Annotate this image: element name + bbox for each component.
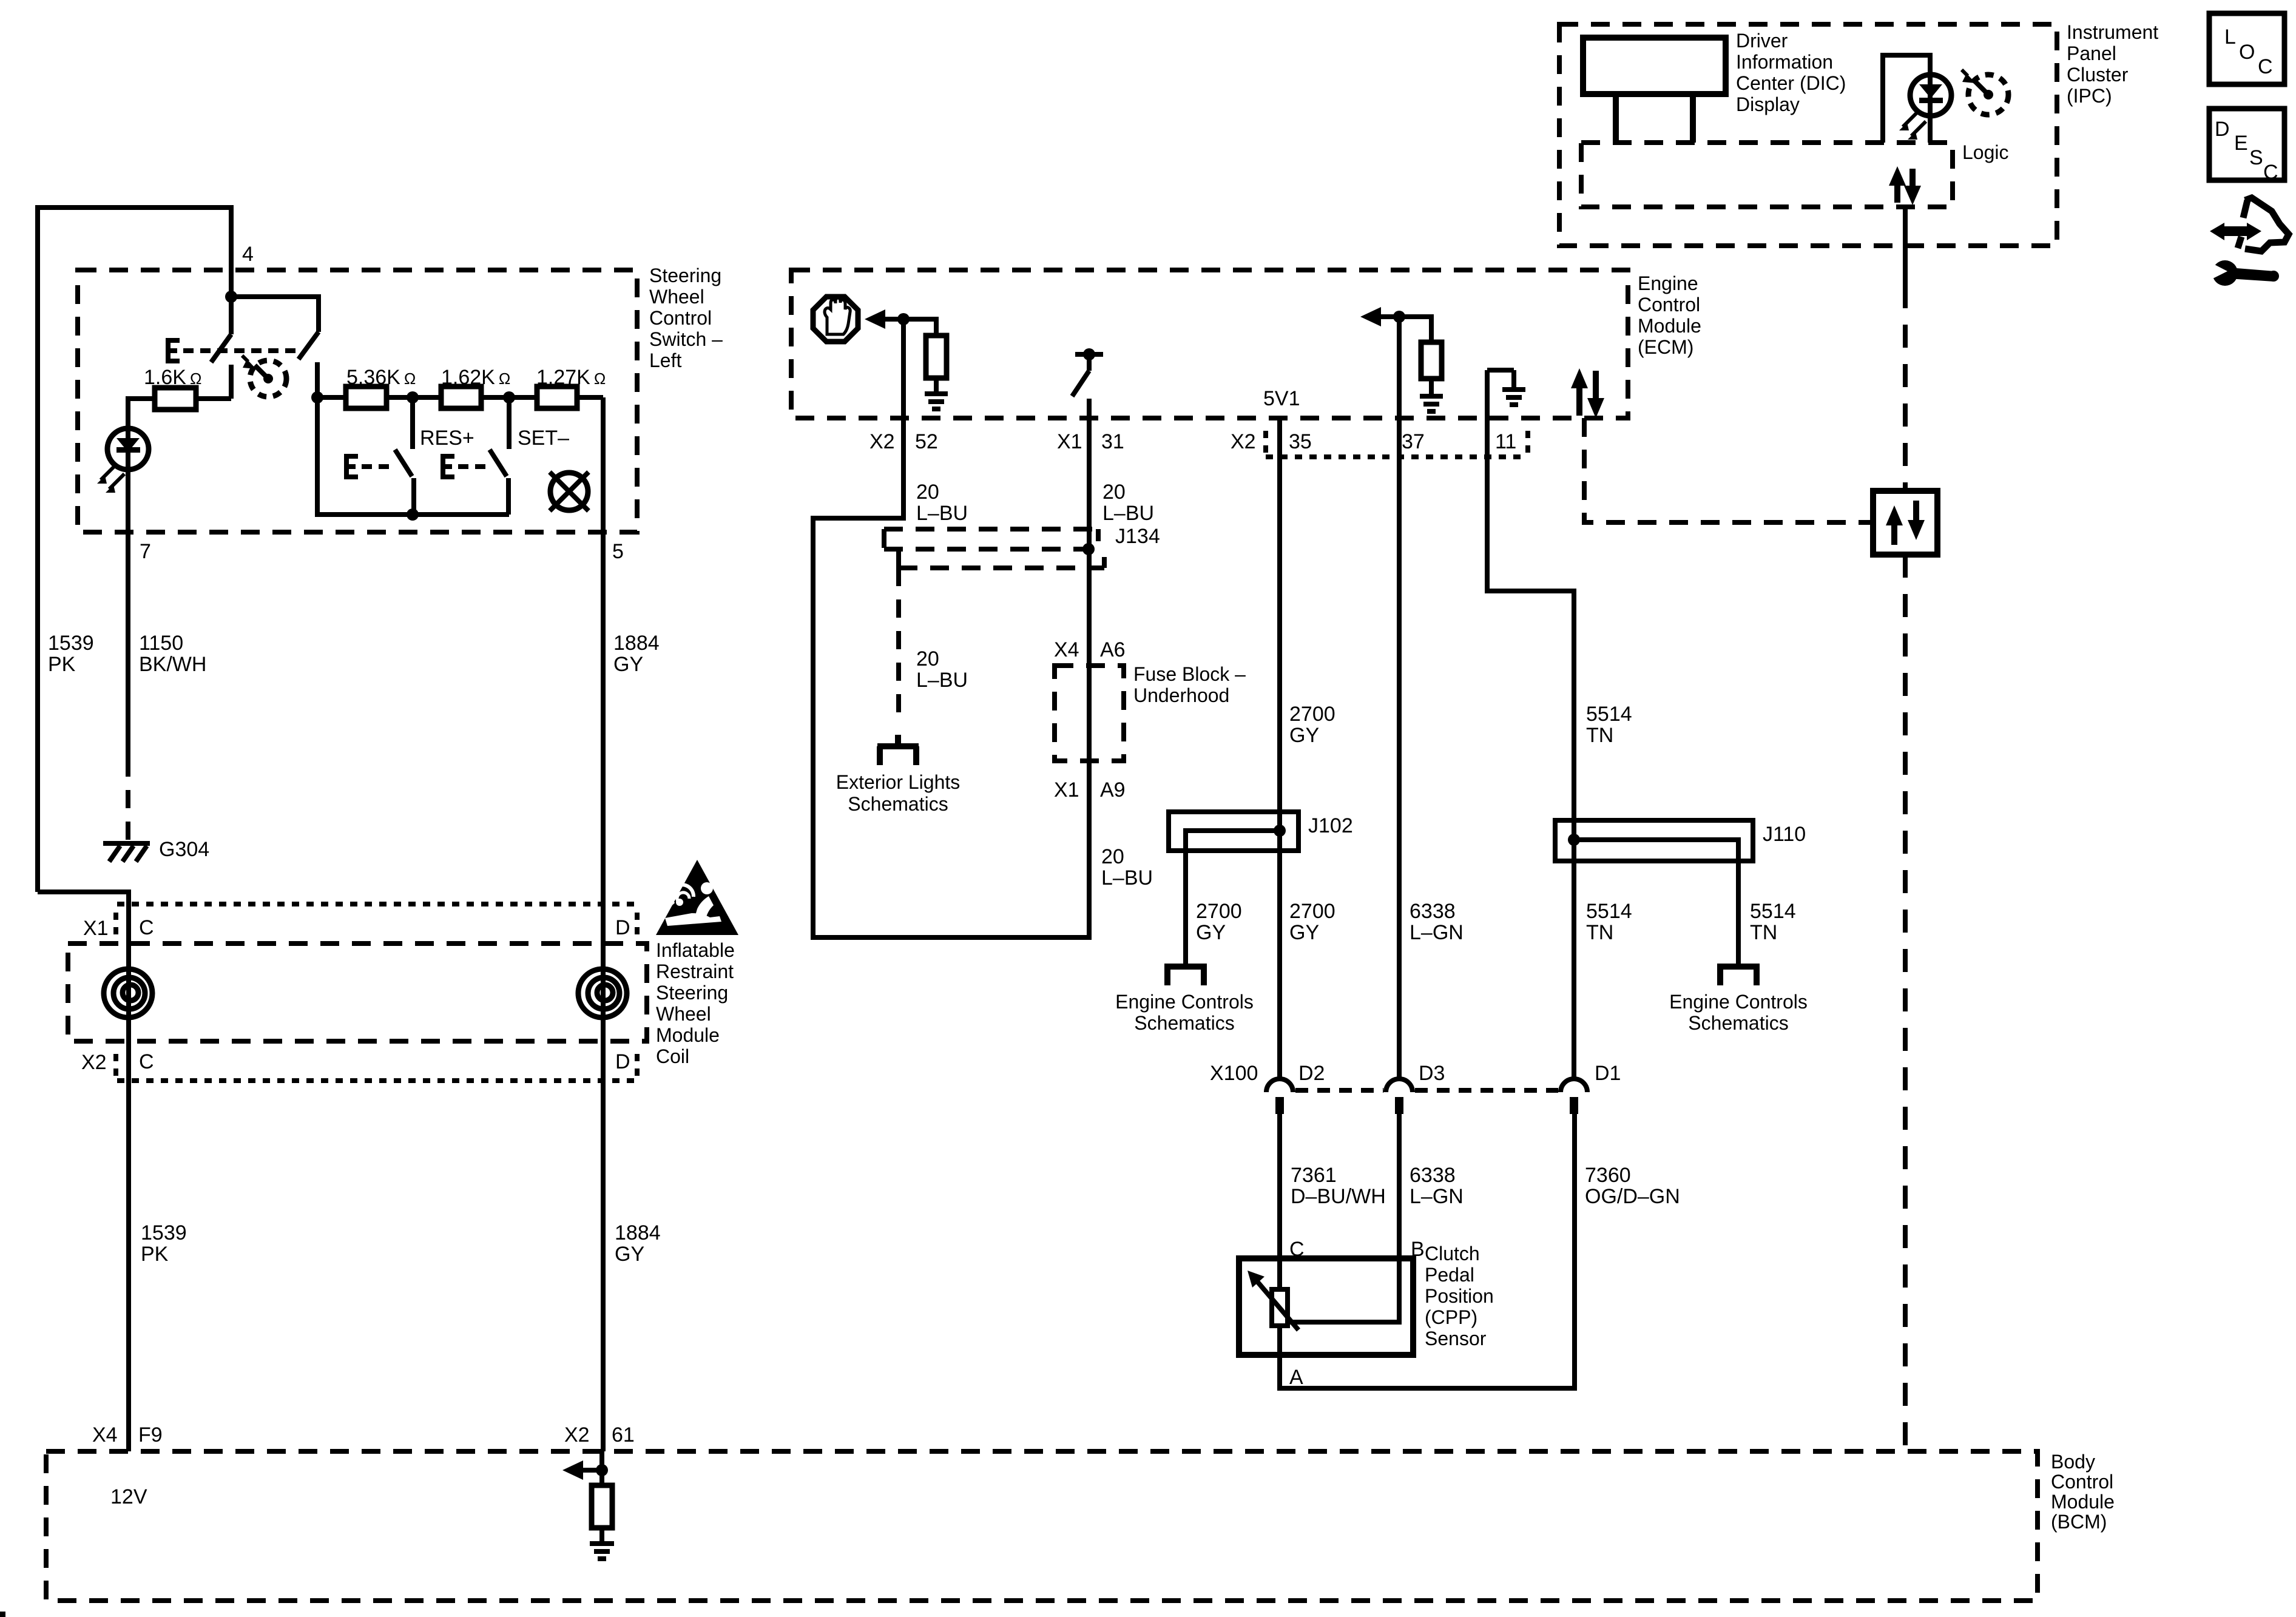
svg-text:D: D [615,1050,630,1073]
svg-text:F9: F9 [138,1423,163,1447]
svg-text:61: 61 [612,1423,635,1447]
svg-text:L–BU: L–BU [916,669,968,692]
X100 D1 pin [1570,1097,1578,1114]
coil module dashed box [68,944,647,1041]
svg-text:Inflatable: Inflatable [656,939,735,961]
connector box arrows [1886,501,1925,545]
J110 internal branch [1574,840,1738,965]
wire R1 to LED [128,399,155,428]
svg-text:12V: 12V [110,1485,147,1508]
svg-text:7360: 7360 [1585,1164,1631,1187]
resistor R4 1.27K body [537,387,577,408]
CPP potentiometer body [1272,1289,1288,1326]
svg-text:20: 20 [1102,481,1126,504]
svg-text:Pedal: Pedal [1425,1264,1474,1286]
wire 6338 pin37 down [1397,317,1402,1078]
svg-text:A9: A9 [1100,778,1126,802]
connector X2 right tick [635,1054,640,1078]
svg-text:X1: X1 [83,917,109,940]
actuator dashed link S1 [183,348,302,353]
wire 5V1 pin35 down [1277,418,1282,1078]
svg-text:X4: X4 [1054,638,1079,661]
wire 6338 D3 to CPP B [1288,1114,1399,1322]
junction node at pin4 entry [225,291,237,303]
IPC gauge icon [1962,70,2008,115]
left clockspring coil [104,969,152,1018]
svg-text:J102: J102 [1308,814,1353,837]
wire from pin 4 feed (top-left loop) [38,208,231,892]
resistor R3 1.62K body [441,387,481,408]
logic serial arrows up/down [1889,166,1921,205]
svg-text:Position: Position [1425,1285,1494,1307]
svg-text:5V1: 5V1 [1263,387,1300,410]
svg-text:Schematics: Schematics [848,793,948,815]
svg-text:Body: Body [2051,1451,2095,1473]
svg-text:A6: A6 [1100,638,1126,661]
wire logic to IPC edge [1903,207,1908,285]
svg-text:Information: Information [1736,51,1833,73]
svg-text:Control: Control [2051,1471,2113,1493]
svg-text:X2: X2 [81,1051,107,1074]
X100 D1 socket arc [1561,1079,1587,1092]
svg-text:Coil: Coil [656,1045,689,1067]
LED wire to pin 7 [126,470,130,758]
J102 junction dot [1274,825,1286,837]
svg-text:6338: 6338 [1410,1164,1456,1187]
SET- actuator E [443,456,454,477]
svg-text:PK: PK [48,653,76,676]
connector X1 right tick [635,913,640,937]
svg-text:J110: J110 [1763,823,1806,846]
DIC display legs [1616,94,1693,143]
svg-text:Restraint: Restraint [656,960,734,982]
svg-text:1150: 1150 [139,632,183,655]
svg-text:7361: 7361 [1291,1164,1337,1187]
serial data dashed line lower [1903,555,1908,1451]
svg-text:Cluster: Cluster [2067,64,2129,86]
svg-text:X1: X1 [1054,778,1079,802]
wire resistor to ground [934,378,939,393]
wire jog bottom-left to coil X1-C [38,892,129,1081]
svg-text:X1: X1 [1057,430,1082,453]
X100 D2 socket arc [1266,1079,1293,1092]
wire to internal resistor (37) [1399,317,1431,342]
resistor R2 5.36K body [346,387,387,408]
svg-text:52: 52 [915,430,938,453]
LOC legend box [2209,13,2284,84]
dashed drain wire to G304 [126,758,130,841]
ECM internal ground (37) [1420,396,1443,411]
svg-text:TN: TN [1586,724,1613,747]
splice J102 box [1169,812,1298,851]
svg-text:(IPC): (IPC) [2067,85,2112,107]
svg-text:Steering: Steering [649,265,721,286]
svg-text:Display: Display [1736,93,1800,115]
serial data connector box [1873,491,1937,555]
wire 1884 GY lower [601,1081,606,1451]
svg-text:O: O [2239,41,2255,64]
svg-text:BK/WH: BK/WH [139,653,206,676]
connector X1 left tick [113,913,118,937]
svg-text:GY: GY [613,653,643,676]
gauge icon (cruise indicator) [242,356,286,397]
logic dashed box [1581,143,1953,207]
svg-text:Wheel: Wheel [649,286,704,308]
wire to internal resistor [903,319,936,336]
wire 7360 D1 to CPP A [1280,1114,1575,1388]
svg-text:Module: Module [656,1024,720,1046]
svg-text:GY: GY [1289,921,1319,944]
left rail down [317,397,509,515]
svg-text:Control: Control [1638,294,1700,316]
ECM X2 connector dotted bracket [1266,431,1528,457]
DIC display box [1583,38,1726,94]
svg-text:Engine Controls: Engine Controls [1115,991,1254,1013]
svg-text:C: C [2258,55,2273,78]
Steering Wheel Control Switch dashed box [78,270,637,532]
svg-text:Exterior Lights: Exterior Lights [836,771,961,793]
svg-text:20: 20 [1101,845,1124,868]
RES+ actuator dashes [362,464,391,469]
IPC LED bracket wire [1883,55,1930,143]
SET- switch stub [507,397,512,449]
junction dot pin52 net [897,313,910,325]
svg-text:20: 20 [916,481,939,504]
svg-text:(BCM): (BCM) [2051,1511,2107,1533]
SET- actuator dashes [458,464,488,469]
switch S1 right pole (resistor chain feed) [231,297,319,397]
arrow into stop icon [880,317,900,322]
junction dot pin61 net [596,1464,608,1476]
J110 junction dot [1568,834,1580,846]
svg-text:1884: 1884 [613,632,660,655]
SET- switch blade [490,450,508,515]
svg-text:OG/D–GN: OG/D–GN [1585,1185,1680,1208]
svg-text:4: 4 [242,243,254,266]
svg-text:Steering: Steering [656,982,728,1004]
svg-text:Underhood: Underhood [1133,684,1229,706]
svg-text:20: 20 [916,647,939,670]
IPC photo-LED [1899,75,1951,140]
wire 7361 D2 to CPP C [1277,1114,1282,1289]
svg-text:L–GN: L–GN [1410,921,1464,944]
svg-text:GY: GY [1196,921,1226,944]
svg-text:Panel: Panel [2067,42,2116,64]
svg-text:1539: 1539 [48,632,94,655]
X100 dashed link D2-D3 [1295,1088,1383,1093]
svg-text:Logic: Logic [1962,141,2009,163]
svg-text:Wheel: Wheel [656,1003,711,1025]
svg-text:1884: 1884 [615,1221,661,1244]
svg-text:RES+: RES+ [420,427,474,450]
ECM serial-data dashed branch [1584,418,1873,522]
svg-text:(ECM): (ECM) [1638,336,1693,358]
svg-text:Left: Left [649,349,681,371]
off-page bracket engine controls (J110) [1717,967,1760,985]
wire R1 to S1 contact [196,396,231,401]
resistor R1 1.6K body [155,388,196,410]
svg-text:5514: 5514 [1586,703,1632,726]
wire pin 5 down [601,397,606,904]
svg-text:7: 7 [140,540,151,563]
CPP wiper arrow [1257,1281,1298,1330]
svg-text:C: C [139,916,154,939]
ECM internal ground circuit (11) [1487,370,1514,388]
ECM internal ground (52) [925,394,948,409]
wire 61 to pulldown [599,1451,604,1485]
splice J110 box [1555,820,1753,861]
right clockspring coil [578,969,627,1018]
svg-text:35: 35 [1289,430,1312,453]
ground in BCM [590,1544,614,1559]
actuator E glyph for S1 [168,340,180,361]
svg-text:X100: X100 [1210,1062,1258,1085]
stop (hand) icon [813,297,858,342]
wire resistor to ground [599,1528,604,1542]
svg-text:GY: GY [1289,724,1319,747]
ECM internal resistor (37) [1421,342,1442,379]
junction dot pin37 net [1393,311,1405,323]
svg-text:Engine: Engine [1638,272,1698,294]
svg-text:L–GN: L–GN [1410,1185,1464,1208]
J134 splice dashed lines [884,529,1098,541]
svg-text:Engine Controls: Engine Controls [1669,991,1808,1013]
svg-text:X4: X4 [92,1423,118,1447]
page corner mark [0,1612,5,1617]
svg-text:L–BU: L–BU [916,502,968,525]
svg-text:31: 31 [1101,430,1124,453]
svg-text:D: D [615,916,630,939]
off-page bracket exterior lights [877,735,919,765]
wire LED to logic [1928,116,1933,143]
IPC dashed box [1559,24,2057,246]
junction dots on rail [311,391,323,403]
svg-text:L–BU: L–BU [1102,502,1154,525]
svg-text:E: E [2234,132,2248,155]
svg-text:J134: J134 [1115,525,1160,548]
clutch request switch bar [1075,352,1103,357]
switch S1 left pole (lamp feed) [211,297,231,399]
svg-text:5: 5 [612,540,624,563]
svg-text:6338: 6338 [1410,900,1456,923]
X100 dashed link D3-D1 [1415,1088,1558,1093]
connector X1 dotted line [117,902,641,906]
RES+ switch blade [395,450,414,515]
LED D1 (illumination) [97,428,149,493]
X100 D3 socket arc [1386,1079,1413,1092]
svg-text:Driver: Driver [1736,30,1788,52]
svg-text:C: C [139,1050,154,1073]
svg-text:A: A [1289,1366,1303,1389]
DESC legend box [2209,109,2284,184]
svg-text:Module: Module [1638,315,1701,337]
ground G304 [103,843,150,862]
wire resistor to ground (37) [1429,379,1434,395]
ECM serial arrows up/down [1571,368,1604,418]
svg-text:L: L [2224,25,2236,49]
svg-text:Schematics: Schematics [1688,1012,1788,1034]
svg-text:Center (DIC): Center (DIC) [1736,72,1846,94]
svg-text:S: S [2249,146,2263,169]
svg-text:X2: X2 [869,430,895,453]
dashed branch to exterior lights [896,568,901,722]
svg-text:Fuse Block –: Fuse Block – [1133,663,1246,685]
ECM dashed box [791,270,1628,418]
svg-text:TN: TN [1750,921,1777,944]
diagnostic tool icon [2206,198,2289,286]
svg-text:Module: Module [2051,1491,2115,1513]
RES+ switch stub [410,397,415,449]
svg-text:C: C [2263,161,2278,184]
svg-text:2700: 2700 [1196,900,1242,923]
svg-text:D3: D3 [1419,1062,1445,1085]
svg-text:11: 11 [1495,430,1516,453]
svg-text:SET–: SET– [518,427,569,450]
resistor chain rail [317,395,603,400]
J134 junction dot [1082,543,1095,555]
svg-text:Instrument: Instrument [2067,21,2158,43]
svg-text:Schematics: Schematics [1134,1012,1234,1034]
X100 D3 pin [1395,1097,1403,1114]
svg-text:5514: 5514 [1586,900,1632,923]
ECM internal resistor (52) [926,336,947,378]
clutch request switch node [1083,348,1095,360]
X100 D2 pin [1275,1097,1284,1114]
J102 internal branch [1186,831,1280,965]
svg-text:D2: D2 [1298,1062,1325,1085]
clutch request switch stem and blade [1072,354,1089,396]
connector X2 left tick [113,1054,118,1078]
svg-text:5514: 5514 [1750,900,1796,923]
svg-text:D: D [2215,118,2230,141]
svg-text:D–BU/WH: D–BU/WH [1291,1185,1386,1208]
svg-text:(CPP): (CPP) [1425,1306,1477,1328]
wire 52 loop to fuse block [813,319,1089,937]
svg-text:Switch –: Switch – [649,328,723,350]
svg-text:Control: Control [649,307,712,329]
fuse block dashed box [1055,666,1124,761]
svg-text:L–BU: L–BU [1101,866,1153,890]
svg-text:GY: GY [615,1243,644,1266]
wire pin11 down and jog [1487,370,1574,1078]
svg-text:37: 37 [1402,430,1425,453]
svg-text:TN: TN [1586,921,1613,944]
off-page bracket engine controls (J102) [1164,967,1207,985]
svg-text:2700: 2700 [1289,900,1335,923]
wire 1539 PK lower [126,1081,131,1451]
pulldown resistor in BCM [592,1485,612,1528]
svg-text:X2: X2 [1231,430,1256,453]
BCM dashed box [46,1451,2038,1601]
svg-text:G304: G304 [159,838,209,861]
connector X2 dotted line [117,1078,641,1083]
svg-text:PK: PK [141,1243,169,1266]
lamp symbol (circle-X) [550,472,589,511]
svg-text:Clutch: Clutch [1425,1243,1480,1264]
svg-text:2700: 2700 [1289,703,1335,726]
arrow out pin37 net [1380,314,1399,319]
serial data dashed line upper [1903,285,1908,491]
CPP sensor box [1239,1258,1413,1355]
BCM output arrow at pin 61 [581,1468,602,1473]
svg-text:1539: 1539 [141,1221,187,1244]
svg-text:Sensor: Sensor [1425,1328,1487,1349]
ECM internal ground (11) [1502,390,1525,405]
svg-text:D1: D1 [1595,1062,1621,1085]
svg-text:X2: X2 [564,1423,590,1447]
RES+ actuator E [346,456,358,477]
wire through right coil [601,904,606,1081]
airbag warning triangle [656,860,738,935]
